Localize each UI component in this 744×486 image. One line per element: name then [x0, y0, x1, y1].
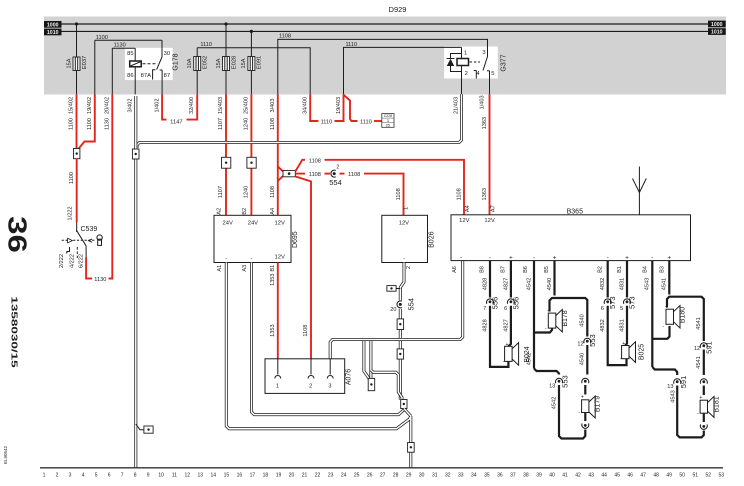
- svg-text:1108: 1108: [303, 325, 309, 337]
- svg-text:4: 4: [82, 473, 85, 479]
- wire 1108 from 3/403: [277, 94, 279, 215]
- wire 20/402 drop: [111, 48, 113, 94]
- svg-text:25: 25: [354, 473, 360, 479]
- G377 switch arm: [487, 47, 489, 57]
- svg-text:4832: 4832: [600, 278, 606, 290]
- svg-text:3: 3: [482, 50, 485, 56]
- net label 1010 left: [44, 29, 62, 36]
- svg-text:3: 3: [69, 473, 72, 479]
- svg-text:1100: 1100: [87, 118, 93, 130]
- speaker circuit B8/B7 to B024: [489, 261, 491, 298]
- G377 diode: [451, 54, 462, 59]
- G178 coil: [134, 48, 136, 61]
- svg-text:20: 20: [390, 307, 396, 313]
- wire 1100 from E037: [76, 94, 78, 148]
- svg-text:573: 573: [608, 296, 617, 309]
- svg-text:-: -: [251, 256, 253, 262]
- svg-text:12V: 12V: [275, 221, 285, 227]
- svg-text:1010: 1010: [47, 30, 59, 36]
- svg-text:30: 30: [419, 473, 425, 479]
- svg-text:19: 19: [276, 473, 282, 479]
- bus 1000: [62, 23, 709, 25]
- wire 1363 G377 pin5 to B365 A7: [489, 94, 491, 215]
- G377 dashed link: [470, 61, 481, 63]
- svg-text:2: 2: [56, 473, 59, 479]
- svg-text:4828: 4828: [482, 278, 488, 290]
- svg-text:37: 37: [510, 473, 516, 479]
- svg-text:45: 45: [614, 473, 620, 479]
- svg-text:1108: 1108: [309, 172, 321, 178]
- svg-text:13: 13: [549, 384, 555, 390]
- inline connector 554 pin 20: [398, 300, 403, 308]
- svg-text:50: 50: [679, 473, 685, 479]
- svg-text:35: 35: [484, 473, 490, 479]
- svg-text:48: 48: [653, 473, 659, 479]
- svg-text:4542: 4542: [526, 353, 532, 365]
- junction connector: [401, 400, 407, 409]
- svg-text:D929: D929: [389, 5, 407, 14]
- svg-text:87: 87: [164, 73, 170, 79]
- svg-text:A3: A3: [242, 265, 248, 272]
- svg-text:EL90542: EL90542: [3, 446, 8, 465]
- power distribution band D929: [44, 17, 726, 95]
- svg-text:4540: 4540: [547, 278, 553, 290]
- svg-text:B180: B180: [680, 307, 687, 323]
- svg-text:8: 8: [134, 473, 137, 479]
- G377 coil: [461, 47, 463, 58]
- wire bus 1108: [278, 39, 488, 94]
- svg-text:19/403: 19/403: [336, 97, 342, 114]
- svg-text:21: 21: [302, 473, 308, 479]
- svg-text:1108: 1108: [279, 34, 291, 40]
- svg-text:20: 20: [289, 473, 295, 479]
- svg-text:E091: E091: [257, 56, 263, 70]
- svg-text:1363: 1363: [482, 188, 488, 200]
- svg-text:4542: 4542: [526, 278, 532, 290]
- svg-text:18: 18: [263, 473, 269, 479]
- svg-text:41: 41: [562, 473, 568, 479]
- svg-text:1100: 1100: [69, 118, 75, 130]
- svg-text:43: 43: [588, 473, 594, 479]
- svg-text:12V: 12V: [399, 221, 409, 227]
- svg-text:12V: 12V: [484, 218, 494, 224]
- svg-text:1353: 1353: [270, 324, 276, 336]
- svg-text:31: 31: [432, 473, 438, 479]
- svg-text:1107: 1107: [218, 186, 224, 198]
- svg-text:B2: B2: [598, 266, 604, 273]
- svg-text:1130: 1130: [105, 118, 111, 130]
- svg-text:591: 591: [704, 341, 713, 354]
- svg-text:1130: 1130: [114, 43, 126, 49]
- svg-text:51: 51: [693, 473, 699, 479]
- branch 1108 upper to B365 A4: [295, 160, 305, 172]
- svg-text:-: -: [225, 256, 227, 262]
- svg-text:42: 42: [575, 473, 581, 479]
- connector on 1240: [247, 157, 256, 168]
- wire bus 1100: [95, 39, 162, 41]
- B178 plus tee: [550, 298, 588, 337]
- svg-text:12: 12: [694, 346, 700, 352]
- unit D695: [214, 215, 291, 262]
- connector on chain lower: [397, 349, 404, 359]
- connector arc on B181 plus: [702, 378, 705, 385]
- svg-text:2: 2: [336, 165, 339, 171]
- relay G377 body: [444, 47, 498, 79]
- wire 1107: [225, 94, 227, 215]
- svg-text:B8: B8: [480, 266, 486, 273]
- svg-text:16: 16: [237, 473, 243, 479]
- svg-text:1100: 1100: [69, 172, 75, 184]
- svg-text:7: 7: [483, 306, 486, 312]
- svg-text:7: 7: [121, 473, 124, 479]
- svg-text:E037: E037: [82, 56, 88, 70]
- svg-text:B7: B7: [500, 266, 506, 273]
- svg-text:23: 23: [328, 473, 334, 479]
- svg-text:1130: 1130: [94, 277, 106, 283]
- svg-text:G377: G377: [501, 54, 508, 71]
- wire 1240: [250, 94, 252, 215]
- svg-text:39: 39: [536, 473, 542, 479]
- svg-text:14: 14: [211, 473, 217, 479]
- svg-text:17: 17: [250, 473, 256, 479]
- svg-text:36: 36: [2, 216, 31, 253]
- svg-text:3/403: 3/403: [270, 99, 276, 113]
- svg-text:G178: G178: [173, 53, 180, 70]
- svg-text:4540: 4540: [580, 314, 586, 326]
- svg-text:B2: B2: [242, 208, 248, 215]
- C539 terminal 4/222: [76, 247, 78, 258]
- svg-text:B4: B4: [642, 266, 648, 273]
- svg-text:553: 553: [588, 334, 597, 347]
- svg-text:E052: E052: [203, 56, 209, 70]
- svg-text:B179: B179: [595, 396, 602, 412]
- 4543 jog to 591 pin 13: [652, 367, 677, 375]
- svg-text:A4: A4: [270, 208, 276, 215]
- svg-text:B025: B025: [638, 344, 645, 360]
- svg-text:A2: A2: [217, 208, 223, 215]
- junction fan 554 on 1108: [278, 167, 283, 172]
- screen branch to junction: [371, 370, 402, 400]
- grid ruler: [40, 467, 723, 469]
- svg-text:15A: 15A: [67, 58, 73, 68]
- svg-text:1353: 1353: [270, 273, 276, 285]
- 4542 jog to 553 pin 13: [534, 369, 559, 375]
- svg-text:1100: 1100: [96, 35, 108, 41]
- svg-text:1147: 1147: [170, 119, 182, 125]
- svg-text:20/402: 20/402: [105, 97, 111, 114]
- inline connector 591 pin 12: [702, 342, 705, 349]
- svg-text:34/400: 34/400: [303, 97, 309, 114]
- svg-text:573: 573: [628, 296, 637, 309]
- screen stub to terminator: [364, 341, 369, 378]
- svg-text:A7: A7: [491, 205, 497, 212]
- unit B026: [382, 215, 428, 262]
- svg-text:C539: C539: [81, 226, 98, 233]
- svg-text:B6: B6: [523, 266, 529, 273]
- svg-text:D695: D695: [292, 231, 299, 248]
- svg-text:27: 27: [380, 473, 386, 479]
- svg-text:32/400: 32/400: [189, 97, 195, 114]
- svg-text:15A: 15A: [216, 58, 222, 68]
- screen terminator connector: [368, 378, 375, 390]
- svg-text:32: 32: [445, 473, 451, 479]
- connector arc on B179 minus: [584, 422, 587, 429]
- wire 1110 below band: [310, 94, 318, 121]
- wire 3/402 screen from G178: [134, 96, 137, 468]
- fan below junction: [404, 409, 411, 417]
- svg-text:47: 47: [640, 473, 646, 479]
- branch 1108 lower to A076 pin2: [295, 176, 311, 358]
- svg-text:A1: A1: [217, 265, 223, 272]
- amplifier A076: [265, 359, 345, 394]
- svg-text:33: 33: [458, 473, 464, 479]
- svg-text:3/402: 3/402: [128, 99, 134, 113]
- svg-text:1110: 1110: [345, 42, 357, 48]
- wire bus 1110 left segment: [197, 48, 310, 95]
- fuse E052: [196, 48, 198, 57]
- relay G178 body: [125, 48, 173, 80]
- svg-text:4831: 4831: [619, 278, 625, 290]
- connector arc on B179 plus: [584, 377, 587, 384]
- svg-text:A6: A6: [452, 266, 458, 273]
- svg-text:591: 591: [679, 376, 688, 389]
- svg-text:1108: 1108: [270, 186, 276, 198]
- connector on 1107: [222, 157, 231, 168]
- G377 pin 4: [475, 71, 477, 79]
- wire 1130 from C539: [86, 258, 92, 279]
- svg-text:44: 44: [601, 473, 607, 479]
- G377 pin 2 wire 21/403 in band: [461, 79, 463, 95]
- svg-text:4827: 4827: [503, 278, 509, 290]
- svg-text:4/222: 4/222: [69, 254, 75, 268]
- svg-text:1010: 1010: [711, 30, 723, 36]
- svg-text:2/222: 2/222: [59, 254, 65, 268]
- wire 21/403 screen from G377: [137, 94, 462, 148]
- svg-text:13: 13: [667, 384, 673, 390]
- svg-text:1000: 1000: [711, 22, 723, 28]
- svg-text:24: 24: [341, 473, 347, 479]
- svg-text:4827: 4827: [503, 319, 509, 331]
- svg-text:B3: B3: [659, 266, 665, 273]
- net label 1010 right: [708, 28, 726, 35]
- svg-text:12: 12: [577, 341, 583, 347]
- svg-text:-: -: [460, 255, 462, 262]
- svg-text:B1: B1: [617, 266, 623, 273]
- svg-text:+: +: [505, 342, 508, 348]
- branch 1108 middle through connector 554 to B026: [295, 173, 305, 175]
- B180 minus tee: [652, 326, 669, 339]
- svg-text:22: 22: [315, 473, 321, 479]
- svg-text:52: 52: [706, 473, 712, 479]
- svg-text:6/222: 6/222: [78, 254, 84, 268]
- svg-text:4541: 4541: [696, 356, 702, 368]
- svg-text:49: 49: [666, 473, 672, 479]
- svg-text:1108: 1108: [456, 188, 462, 200]
- svg-text:554: 554: [406, 298, 415, 311]
- svg-text:556: 556: [511, 297, 520, 310]
- C539 key symbol: [97, 235, 102, 240]
- svg-text:38: 38: [523, 473, 529, 479]
- svg-text:B365: B365: [567, 208, 583, 215]
- speaker circuit B4/B3 to B180 and B181: [651, 261, 653, 368]
- svg-text:4832: 4832: [600, 319, 606, 331]
- node dot E091/1010: [250, 30, 253, 33]
- C539 terminal 6/222: [85, 246, 87, 258]
- svg-text:1107: 1107: [218, 118, 224, 130]
- svg-text:15/402: 15/402: [69, 97, 75, 114]
- G178 pin 87: [161, 70, 163, 94]
- svg-text:+: +: [622, 341, 625, 347]
- svg-text:4541: 4541: [696, 317, 702, 329]
- G178 87A contact: [153, 70, 156, 80]
- svg-text:25: 25: [386, 124, 390, 128]
- svg-text:1363: 1363: [482, 117, 488, 129]
- svg-text:A4: A4: [465, 205, 471, 212]
- svg-text:1240: 1240: [244, 118, 250, 130]
- svg-text:24V: 24V: [248, 221, 258, 227]
- svg-text:1000: 1000: [47, 23, 59, 29]
- svg-text:3: 3: [328, 384, 331, 390]
- svg-text:36: 36: [497, 473, 503, 479]
- svg-text:12V: 12V: [459, 218, 469, 224]
- fuse E091: [250, 31, 252, 56]
- wire bus 1130: [112, 47, 135, 49]
- antenna: [638, 167, 640, 215]
- svg-text:87A: 87A: [141, 73, 151, 79]
- svg-text:1: 1: [276, 384, 279, 390]
- svg-text:34: 34: [471, 473, 477, 479]
- svg-text:B1: B1: [270, 265, 276, 272]
- fuse E037: [76, 24, 78, 57]
- svg-text:5: 5: [95, 473, 98, 479]
- svg-text:E028: E028: [231, 56, 237, 70]
- net label 1000 right: [708, 21, 726, 28]
- svg-text:2: 2: [309, 384, 312, 390]
- svg-text:1110: 1110: [321, 120, 333, 126]
- wire 1100 from 19/402: [79, 94, 95, 148]
- svg-text:4543: 4543: [670, 390, 676, 402]
- svg-text:30: 30: [164, 51, 170, 57]
- svg-text:1: 1: [464, 50, 467, 56]
- svg-text:53: 53: [719, 473, 725, 479]
- svg-text:13: 13: [198, 473, 204, 479]
- svg-text:1110: 1110: [360, 120, 372, 126]
- svg-text:-: -: [403, 256, 405, 262]
- svg-text:4541: 4541: [662, 278, 668, 290]
- svg-text:553: 553: [560, 375, 569, 388]
- svg-text:15A: 15A: [241, 58, 247, 68]
- connector block C228: [382, 114, 394, 128]
- wire 1353 D695 B1 to A076: [277, 263, 279, 359]
- svg-text:40: 40: [549, 473, 555, 479]
- svg-text:1108: 1108: [396, 188, 402, 200]
- screen chain B026 pin2: [400, 263, 404, 401]
- radio unit B365: [451, 215, 691, 261]
- svg-text:3: 3: [387, 119, 389, 123]
- svg-text:554: 554: [329, 178, 342, 187]
- svg-text:28: 28: [393, 473, 399, 479]
- G178 switch arm: [161, 40, 163, 57]
- svg-text:15: 15: [224, 473, 230, 479]
- G178 dashed link: [143, 63, 158, 65]
- connector on wire 1100: [74, 149, 80, 159]
- wire 19/402 drop: [94, 40, 96, 94]
- svg-text:1/403: 1/403: [479, 95, 485, 109]
- svg-text:4543: 4543: [645, 278, 651, 290]
- svg-text:556: 556: [491, 297, 500, 310]
- screen wire D695 A3: [252, 263, 405, 415]
- svg-text:4831: 4831: [619, 319, 625, 331]
- C539 terminal 2/222: [67, 247, 70, 254]
- G377 pin 5: [489, 71, 491, 95]
- wire 1100 to C539: [76, 159, 78, 223]
- svg-text:1108: 1108: [270, 118, 276, 130]
- net label 1000 left: [44, 21, 62, 28]
- svg-text:B181: B181: [713, 396, 720, 412]
- speaker circuit B2/B1 to B025: [607, 261, 609, 298]
- connector on chain: [397, 319, 404, 330]
- svg-text:1/222: 1/222: [67, 207, 73, 221]
- svg-text:B178: B178: [562, 310, 569, 326]
- svg-text:1: 1: [43, 473, 46, 479]
- screen bus B365 A6 to A076 pin3: [330, 261, 463, 359]
- svg-text:24V: 24V: [223, 221, 233, 227]
- svg-text:B5: B5: [544, 266, 550, 273]
- svg-text:1108: 1108: [309, 158, 321, 164]
- branch connector at bottom of 3/402: [136, 424, 144, 430]
- svg-text:1240: 1240: [244, 186, 250, 198]
- fuse E028: [225, 24, 227, 57]
- svg-text:85: 85: [127, 51, 133, 57]
- svg-text:1110: 1110: [200, 42, 212, 48]
- wire 1147 relay 87 to fuse E052: [162, 94, 166, 119]
- svg-text:2: 2: [406, 266, 412, 269]
- svg-text:1: 1: [403, 207, 409, 210]
- svg-text:1/402: 1/402: [154, 99, 160, 113]
- svg-text:4828: 4828: [482, 319, 488, 331]
- svg-text:C228: C228: [384, 114, 392, 118]
- speaker circuit B6/B5 to B178 and B179: [533, 261, 535, 369]
- svg-text:11: 11: [172, 473, 177, 479]
- svg-text:A076: A076: [346, 369, 353, 385]
- node dot E028/1000: [224, 22, 227, 25]
- svg-text:10A: 10A: [187, 58, 193, 68]
- svg-text:25/400: 25/400: [244, 97, 250, 114]
- connector on screen 3/402: [132, 149, 139, 159]
- svg-text:29: 29: [406, 473, 412, 479]
- connector arc on B181 minus: [702, 423, 705, 430]
- svg-text:21/403: 21/403: [454, 97, 460, 114]
- svg-text:2: 2: [465, 71, 468, 77]
- svg-text:6: 6: [504, 306, 507, 312]
- inline connector 553 pin 12: [586, 337, 589, 344]
- svg-text:4542: 4542: [551, 397, 557, 409]
- svg-text:15/403: 15/403: [218, 97, 224, 114]
- bus 1010: [62, 30, 709, 32]
- svg-text:86: 86: [127, 73, 133, 79]
- screen wire D695 A1: [226, 263, 410, 468]
- svg-text:26: 26: [367, 473, 373, 479]
- svg-text:6: 6: [601, 306, 604, 312]
- branch connector left of chain: [396, 288, 400, 290]
- svg-text:5: 5: [491, 71, 494, 77]
- wire bus 1110 right segment: [344, 47, 462, 94]
- node dot E037/1000: [75, 22, 78, 25]
- svg-text:12V: 12V: [275, 255, 285, 261]
- svg-text:6: 6: [108, 473, 111, 479]
- bottom connector: [408, 443, 415, 453]
- svg-text:4540: 4540: [580, 353, 586, 365]
